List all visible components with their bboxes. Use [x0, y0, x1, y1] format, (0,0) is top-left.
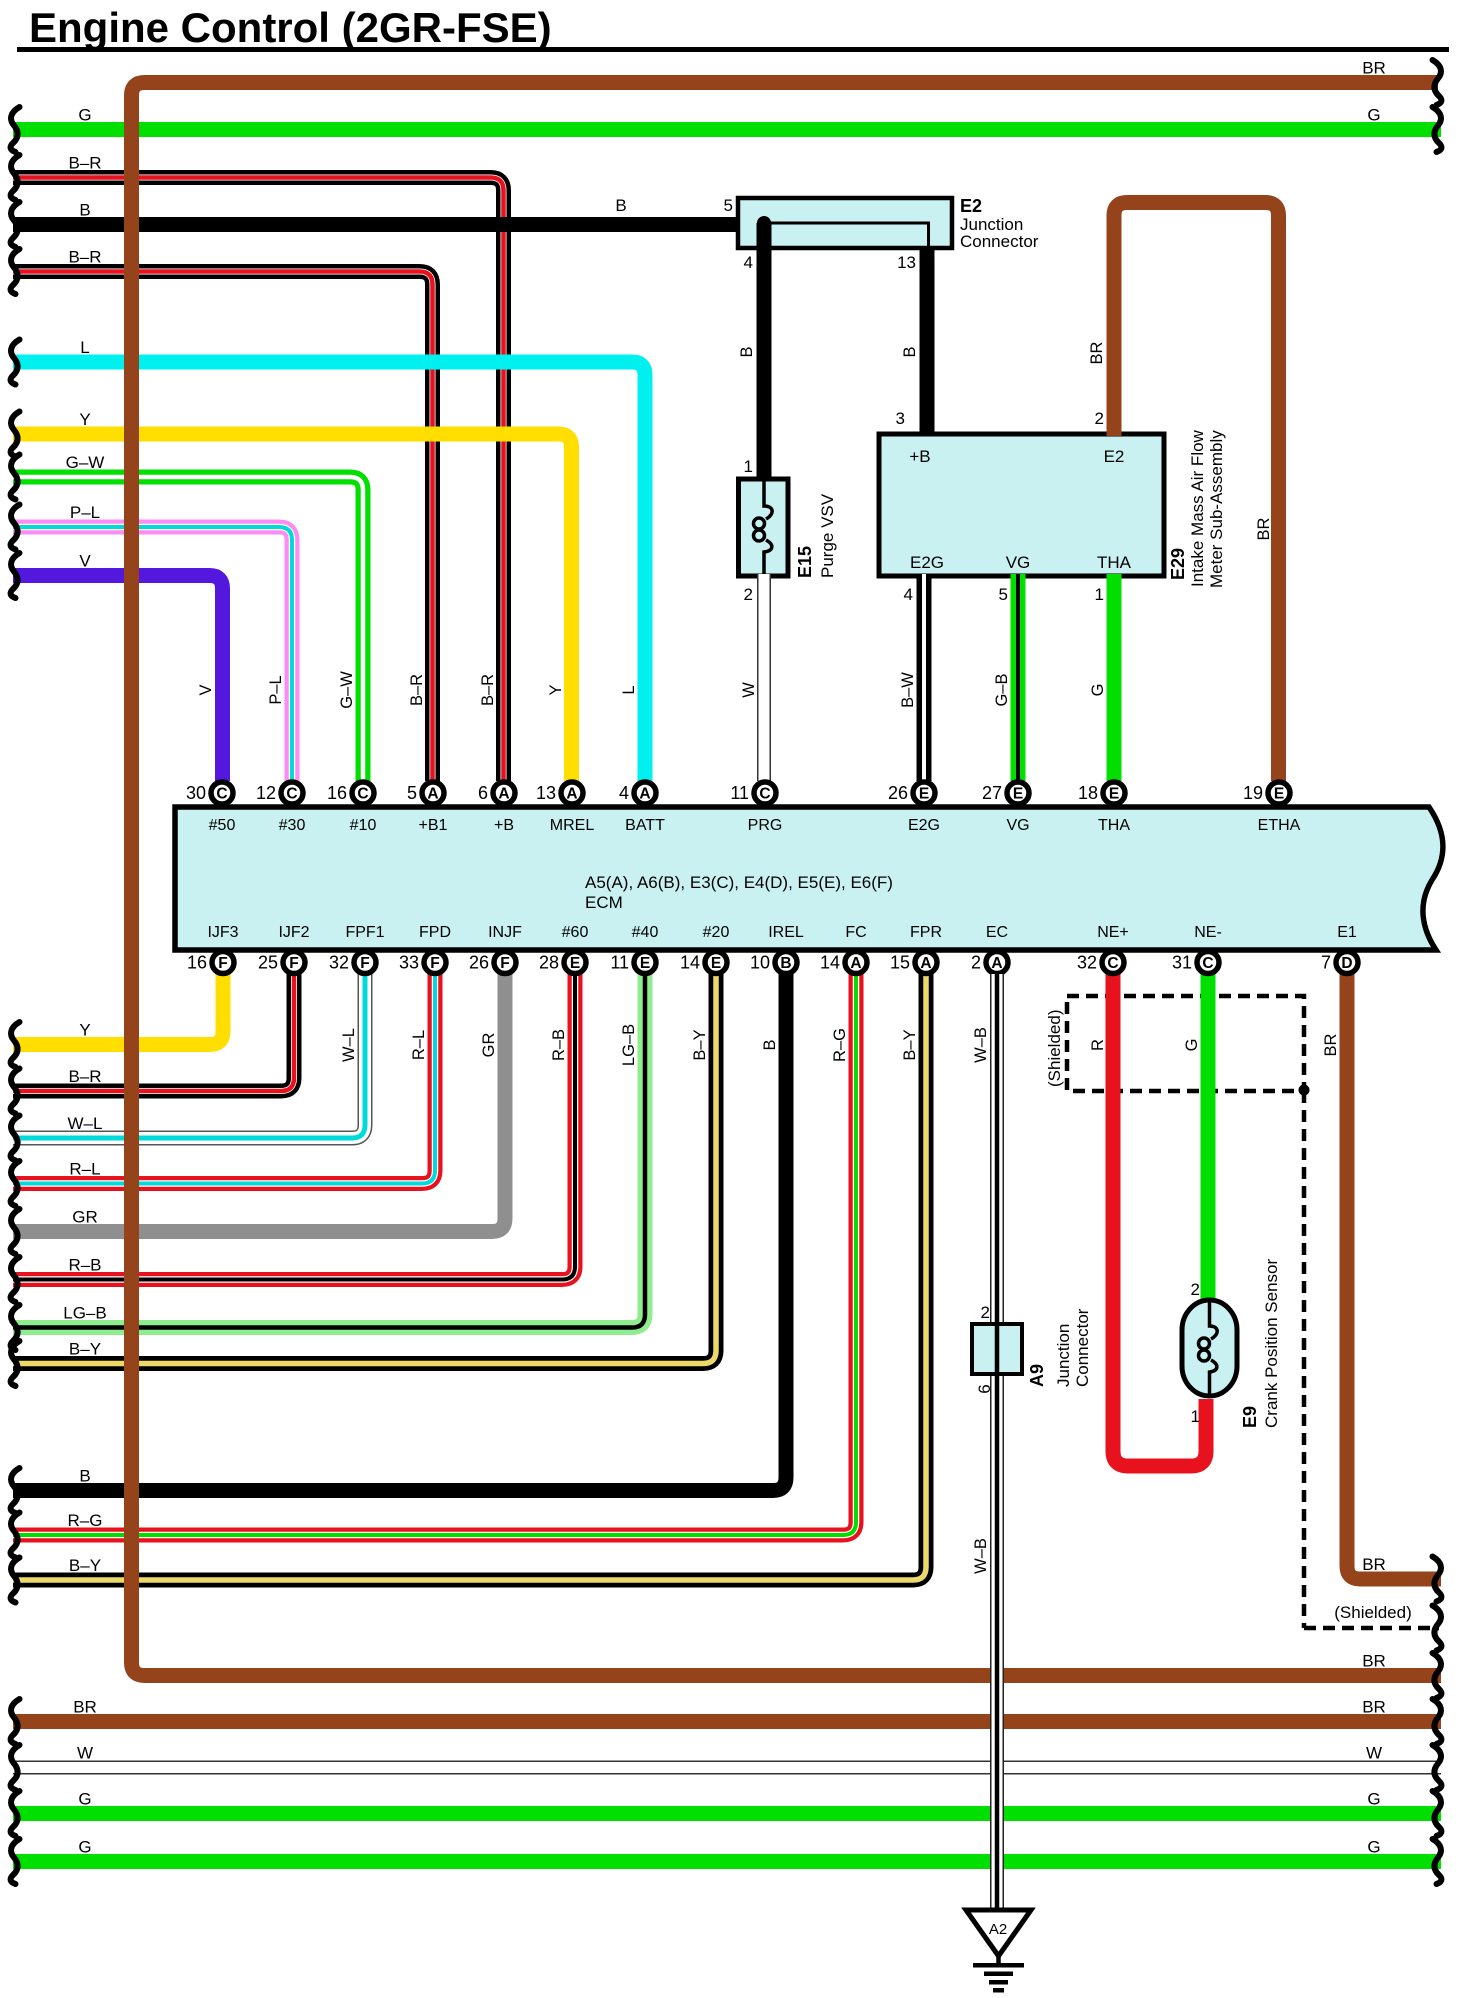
- svg-text:BR: BR: [1088, 341, 1106, 364]
- svg-text:13: 13: [897, 253, 916, 272]
- svg-text:R–B: R–B: [550, 1029, 568, 1061]
- ECM bottom pin 14(A) FC: [820, 924, 867, 974]
- svg-text:B: B: [79, 1467, 90, 1486]
- ECM bottom pin 26(F) INJF: [469, 924, 522, 974]
- wire B from IREL: [13, 974, 786, 1491]
- svg-text:11: 11: [610, 953, 629, 973]
- svg-text:E: E: [570, 955, 580, 972]
- svg-text:B–Y: B–Y: [691, 1029, 709, 1060]
- svg-text:Junction: Junction: [1054, 1324, 1073, 1387]
- svg-text:A: A: [566, 786, 577, 803]
- svg-text:C: C: [357, 786, 368, 803]
- svg-text:BR: BR: [1362, 1652, 1386, 1671]
- svg-text:31: 31: [1172, 953, 1192, 973]
- svg-text:V: V: [79, 552, 91, 571]
- wire BR trunk (top row, left vertical, bottom row): [132, 83, 1442, 1676]
- wire BR from E29 E2 to ETHA: [1114, 203, 1279, 782]
- svg-text:B–R: B–R: [408, 674, 426, 706]
- svg-text:Connector: Connector: [1073, 1308, 1092, 1387]
- svg-text:Y: Y: [79, 1021, 90, 1040]
- ECM bottom pin 15(A) FPR: [890, 924, 942, 974]
- E15 coil: [764, 481, 772, 519]
- svg-text:B–R: B–R: [68, 154, 101, 173]
- ECM bottom pin 32(F) FPF1: [329, 924, 385, 974]
- svg-text:E2: E2: [1104, 447, 1125, 466]
- svg-text:6: 6: [478, 783, 488, 803]
- ground A2 triangle: [966, 1910, 1031, 1956]
- wire-break left B-R3: [11, 1069, 20, 1114]
- svg-text:16: 16: [327, 783, 347, 803]
- svg-text:F: F: [218, 955, 227, 972]
- svg-text:E15: E15: [795, 546, 815, 578]
- wire R-L from FPD: [13, 974, 435, 1184]
- svg-text:18: 18: [1078, 783, 1098, 803]
- svg-text:11: 11: [730, 783, 749, 803]
- shield dashed drain vertical: [1302, 1091, 1307, 1628]
- ECM top pin 19(E) ETHA: [1243, 782, 1301, 834]
- svg-text:NE+: NE+: [1097, 924, 1129, 941]
- svg-text:R–G: R–G: [831, 1028, 849, 1062]
- svg-text:13: 13: [536, 783, 556, 803]
- svg-text:A2: A2: [989, 1921, 1007, 1938]
- junction connector A9 box: [972, 1324, 1022, 1374]
- svg-text:B: B: [780, 955, 791, 972]
- wire-break left R-B: [11, 1257, 20, 1302]
- svg-text:W–B: W–B: [972, 1538, 990, 1574]
- svg-text:10: 10: [750, 953, 770, 973]
- svg-text:F: F: [500, 955, 509, 972]
- svg-text:B–Y: B–Y: [69, 1556, 101, 1575]
- wire-break left G: [11, 107, 20, 152]
- svg-text:A5(A), A6(B), E3(C), E4(D), E5: A5(A), A6(B), E3(C), E4(D), E5(E), E6(F): [585, 873, 893, 892]
- svg-text:R: R: [1089, 1039, 1107, 1051]
- svg-text:P–L: P–L: [267, 675, 285, 704]
- wire R-B from #60: [13, 974, 575, 1280]
- wire-break left B-Y2: [11, 1558, 20, 1603]
- svg-text:Crank Position Sensor: Crank Position Sensor: [1262, 1259, 1281, 1428]
- svg-text:E2: E2: [960, 196, 982, 216]
- svg-text:BR: BR: [1322, 1033, 1340, 1056]
- wire R-G from FC: [13, 974, 856, 1535]
- wire-break right BR E1: [1433, 1557, 1442, 1602]
- shield junction dot: [1299, 1085, 1310, 1096]
- A9 internal wire stripe: [995, 1324, 1000, 1374]
- svg-text:R–G: R–G: [68, 1511, 103, 1530]
- wire-break right BR top: [1433, 60, 1442, 105]
- svg-text:LG–B: LG–B: [620, 1024, 638, 1066]
- ground bars: [973, 1963, 1024, 1993]
- svg-text:F: F: [289, 955, 298, 972]
- svg-text:G: G: [1183, 1039, 1201, 1052]
- svg-text:ETHA: ETHA: [1258, 817, 1301, 834]
- svg-text:Intake Mass Air Flow: Intake Mass Air Flow: [1188, 429, 1207, 587]
- wire-break left B-R2: [11, 249, 20, 294]
- ECM bottom pin 25(F) IJF2: [258, 924, 310, 974]
- svg-text:C: C: [1107, 955, 1118, 972]
- ECM top pin 26(E) E2G: [888, 782, 940, 834]
- ECM top pin 18(E) THA: [1078, 782, 1130, 834]
- wire B-Y from #20: [13, 974, 716, 1364]
- svg-text:BR: BR: [1362, 1698, 1386, 1717]
- E9 coil: [1210, 1302, 1218, 1339]
- svg-text:R–L: R–L: [69, 1160, 100, 1179]
- svg-text:5: 5: [724, 196, 733, 215]
- wire-break left BR2: [11, 1699, 20, 1744]
- svg-text:4: 4: [619, 783, 629, 803]
- svg-text:A: A: [850, 955, 861, 972]
- svg-text:FPF1: FPF1: [345, 924, 384, 941]
- svg-text:32: 32: [329, 953, 349, 973]
- svg-text:E: E: [1013, 786, 1023, 803]
- svg-text:E2G: E2G: [910, 553, 944, 572]
- wire-break left V: [11, 553, 20, 598]
- svg-text:INJF: INJF: [488, 924, 522, 941]
- wire B-W from E2G: [917, 574, 932, 781]
- svg-text:FC: FC: [845, 924, 866, 941]
- wire V to #50: [13, 576, 223, 782]
- wire-break left Y: [11, 412, 20, 457]
- svg-text:Engine Control (2GR-FSE): Engine Control (2GR-FSE): [29, 4, 552, 51]
- svg-text:#10: #10: [350, 817, 377, 834]
- svg-text:THA: THA: [1098, 817, 1130, 834]
- ECM top pin 27(E) VG: [982, 782, 1030, 834]
- svg-text:28: 28: [539, 953, 559, 973]
- shield dashed drain horizontal: [1304, 1626, 1439, 1631]
- wire G (row 2): [13, 122, 1441, 137]
- wire B-R to +B: [13, 178, 504, 782]
- svg-text:#40: #40: [632, 924, 659, 941]
- svg-text:26: 26: [888, 783, 908, 803]
- svg-text:Y: Y: [79, 410, 90, 429]
- svg-text:1: 1: [744, 457, 753, 476]
- wire B-Y from FPR: [13, 974, 926, 1580]
- wire W from E15 to PRG: [757, 574, 771, 781]
- svg-text:E: E: [1109, 786, 1119, 803]
- wire Y to MREL: [13, 434, 572, 781]
- svg-text:B: B: [79, 201, 90, 220]
- svg-text:LG–B: LG–B: [63, 1304, 106, 1323]
- wire-break left B-R: [11, 155, 20, 200]
- svg-text:G: G: [1367, 1838, 1380, 1857]
- ECM top pin 16(C) #10: [327, 782, 376, 834]
- svg-text:NE-: NE-: [1194, 924, 1222, 941]
- svg-text:E: E: [640, 955, 650, 972]
- svg-text:G–W: G–W: [338, 671, 356, 709]
- wire-break left R-L: [11, 1161, 20, 1206]
- wire-break left G3: [11, 1839, 20, 1884]
- svg-text:L: L: [620, 685, 638, 694]
- svg-text:2: 2: [981, 1303, 990, 1322]
- svg-text:+B: +B: [494, 817, 514, 834]
- svg-text:B: B: [901, 346, 919, 357]
- svg-text:BR: BR: [1362, 1555, 1386, 1574]
- svg-text:E: E: [711, 955, 721, 972]
- svg-text:4: 4: [744, 253, 753, 272]
- svg-text:33: 33: [399, 953, 419, 973]
- svg-text:E1: E1: [1337, 924, 1357, 941]
- ECM top pin 5(A) +B1: [407, 782, 448, 834]
- svg-text:L: L: [80, 338, 89, 357]
- svg-text:P–L: P–L: [70, 503, 100, 522]
- svg-text:G–B: G–B: [993, 673, 1011, 706]
- wire-break right BR trunk: [1433, 1653, 1442, 1698]
- svg-text:F: F: [430, 955, 439, 972]
- wire G-B from VG: [1011, 574, 1026, 781]
- wire-break left W-L: [11, 1116, 20, 1161]
- ECM bottom pin 32(C) NE+: [1077, 924, 1129, 974]
- wire L to BATT: [13, 362, 645, 781]
- wire-break right G2: [1433, 1791, 1442, 1836]
- wire-break right BR2: [1433, 1699, 1442, 1744]
- wire Y from IJF3: [13, 974, 223, 1045]
- svg-text:VG: VG: [1006, 553, 1031, 572]
- svg-text:THA: THA: [1097, 553, 1132, 572]
- svg-text:30: 30: [186, 783, 206, 803]
- wire B-R to +B1: [13, 272, 433, 782]
- svg-text:2: 2: [1191, 1280, 1200, 1299]
- ECM top pin 13(A) MREL: [536, 782, 594, 834]
- junction connector E2 box: [738, 198, 952, 248]
- wire-break left GR: [11, 1209, 20, 1254]
- wire W-B from EC to ground: [990, 974, 1004, 1908]
- ECM top pin 12(C) #30: [256, 782, 305, 834]
- svg-text:B: B: [761, 1039, 779, 1050]
- svg-text:G: G: [78, 1790, 91, 1809]
- svg-text:G: G: [78, 1838, 91, 1857]
- ECM bottom pin 33(F) FPD: [399, 924, 451, 974]
- crank position sensor E9 body: [1182, 1300, 1237, 1396]
- wire B from E2 pin13 to E29 +B: [920, 246, 935, 436]
- wire B-R from IJF2: [13, 974, 294, 1091]
- wire-break left G-W: [11, 455, 20, 500]
- intake mass air flow meter E29 box: [879, 434, 1164, 576]
- svg-text:IJF2: IJF2: [278, 924, 309, 941]
- wire-break right shield dash: [1433, 1606, 1442, 1651]
- wire W (bottom row): [13, 1761, 1441, 1775]
- svg-text:B–R: B–R: [479, 674, 497, 706]
- wire BR (row near bottom): [13, 1714, 1441, 1729]
- wire G (bottom row 2): [13, 1854, 1441, 1869]
- ECM top pin 11(C) PRG: [730, 782, 782, 834]
- ECM top pin 6(A) +B: [478, 782, 515, 834]
- wire G from THA: [1107, 574, 1122, 781]
- svg-text:BR: BR: [1362, 59, 1386, 78]
- svg-text:EC: EC: [986, 924, 1008, 941]
- svg-text:14: 14: [820, 953, 840, 973]
- ECM bottom pin 14(E) #20: [680, 924, 729, 974]
- ECM bottom pin 7(D) E1: [1321, 924, 1358, 974]
- svg-text:6: 6: [975, 1384, 994, 1393]
- svg-text:27: 27: [982, 783, 1002, 803]
- svg-text:VG: VG: [1006, 817, 1029, 834]
- svg-text:A: A: [920, 955, 931, 972]
- svg-text:BR: BR: [73, 1698, 97, 1717]
- svg-text:FPR: FPR: [910, 924, 942, 941]
- svg-text:E29: E29: [1168, 548, 1188, 580]
- svg-text:G: G: [1089, 684, 1107, 697]
- wire-break left W: [11, 1745, 20, 1790]
- svg-text:F: F: [360, 955, 369, 972]
- svg-text:C: C: [286, 786, 297, 803]
- svg-text:Meter Sub-Assembly: Meter Sub-Assembly: [1207, 430, 1226, 588]
- svg-text:3: 3: [896, 409, 905, 428]
- wire R from NE+ to E9 pin1: [1113, 974, 1206, 1466]
- svg-text:V: V: [197, 684, 215, 695]
- svg-text:B–R: B–R: [68, 248, 101, 267]
- svg-text:C: C: [1202, 955, 1213, 972]
- ECM bottom pin 16(F) IJF3: [187, 924, 239, 974]
- svg-text:GR: GR: [72, 1208, 98, 1227]
- svg-text:B: B: [615, 196, 626, 215]
- E2 junction dot: [757, 216, 771, 230]
- wire B to E2 junction: [13, 217, 742, 232]
- svg-text:A: A: [427, 786, 438, 803]
- purge VSV E15 box: [739, 479, 789, 576]
- svg-text:E: E: [919, 786, 929, 803]
- svg-text:A: A: [498, 786, 509, 803]
- wire G from NE- to E9 pin2: [1201, 974, 1216, 1302]
- svg-text:A9: A9: [1027, 1364, 1047, 1387]
- wire-break left B-Y: [11, 1341, 20, 1386]
- svg-text:A: A: [991, 955, 1002, 972]
- svg-text:MREL: MREL: [550, 817, 595, 834]
- svg-text:#30: #30: [279, 817, 306, 834]
- svg-text:14: 14: [680, 953, 700, 973]
- ECM bottom pin 31(C) NE-: [1172, 924, 1222, 974]
- svg-text:W: W: [740, 682, 758, 698]
- svg-text:C: C: [216, 786, 227, 803]
- svg-text:D: D: [1341, 955, 1352, 972]
- wire-break left L: [11, 340, 20, 385]
- shield dashed box: [1067, 996, 1304, 1091]
- ground stub: [996, 1956, 1001, 1964]
- svg-text:GR: GR: [480, 1033, 498, 1058]
- wire-break right G top: [1433, 107, 1442, 152]
- svg-text:E2G: E2G: [908, 817, 940, 834]
- svg-text:G: G: [1367, 106, 1380, 125]
- svg-text:Purge VSV: Purge VSV: [818, 493, 837, 578]
- wire G (bottom row 1): [13, 1806, 1441, 1821]
- wire-break left P-L: [11, 505, 20, 550]
- title underline: [17, 47, 1449, 52]
- svg-text:IREL: IREL: [768, 924, 804, 941]
- svg-text:2: 2: [1095, 409, 1104, 428]
- svg-text:25: 25: [258, 953, 278, 973]
- svg-text:#50: #50: [209, 817, 236, 834]
- wire-break left B2: [11, 1468, 20, 1513]
- svg-text:A: A: [639, 786, 650, 803]
- svg-text:+B1: +B1: [419, 817, 448, 834]
- svg-text:C: C: [759, 786, 770, 803]
- wire-break right G3: [1433, 1839, 1442, 1884]
- svg-text:W–B: W–B: [972, 1027, 990, 1063]
- svg-text:2: 2: [971, 953, 981, 973]
- svg-text:B–R: B–R: [68, 1067, 101, 1086]
- ECM box: [175, 807, 1443, 950]
- ECM bottom pin 28(E) #60: [539, 924, 588, 974]
- svg-text:B: B: [738, 346, 756, 357]
- svg-text:4: 4: [904, 585, 913, 604]
- svg-text:R–B: R–B: [68, 1256, 101, 1275]
- svg-text:32: 32: [1077, 953, 1097, 973]
- svg-text:W–L: W–L: [68, 1114, 103, 1133]
- svg-text:7: 7: [1321, 953, 1331, 973]
- svg-text:B–W: B–W: [899, 672, 917, 708]
- svg-text:PRG: PRG: [748, 817, 783, 834]
- svg-text:12: 12: [256, 783, 276, 803]
- wire LG-B from #40: [13, 974, 645, 1328]
- svg-text:Y: Y: [547, 684, 565, 695]
- svg-text:W: W: [1366, 1744, 1382, 1763]
- svg-text:W: W: [77, 1744, 93, 1763]
- svg-text:(Shielded): (Shielded): [1334, 1603, 1412, 1622]
- svg-text:5: 5: [999, 585, 1008, 604]
- svg-text:#60: #60: [562, 924, 589, 941]
- svg-text:W–L: W–L: [340, 1028, 358, 1062]
- svg-text:G–W: G–W: [66, 453, 105, 472]
- svg-text:B–Y: B–Y: [69, 1340, 101, 1359]
- ECM bottom pin 2(A) EC: [971, 924, 1008, 974]
- svg-text:1: 1: [1191, 1407, 1200, 1426]
- svg-text:2: 2: [744, 585, 753, 604]
- svg-text:E9: E9: [1240, 1406, 1260, 1428]
- wire-break right W: [1433, 1745, 1442, 1790]
- svg-text:19: 19: [1243, 783, 1263, 803]
- svg-text:15: 15: [890, 953, 910, 973]
- wire B from E2 pin4 to E15: [757, 223, 772, 481]
- wire-break left Y2: [11, 1022, 20, 1067]
- svg-text:Connector: Connector: [960, 232, 1039, 251]
- svg-text:FPD: FPD: [419, 924, 451, 941]
- svg-text:B–Y: B–Y: [901, 1029, 919, 1060]
- wire P-L to #30: [13, 527, 292, 781]
- svg-text:16: 16: [187, 953, 207, 973]
- wire-break left B: [11, 202, 20, 247]
- svg-text:26: 26: [469, 953, 489, 973]
- ECM bottom pin 11(E) #40: [610, 924, 658, 974]
- svg-text:(Shielded): (Shielded): [1045, 1010, 1064, 1088]
- wire W-L from FPF1: [13, 974, 365, 1138]
- ECM bottom pin 10(B) IREL: [750, 924, 804, 974]
- svg-text:G: G: [78, 106, 91, 125]
- wire-break left R-G: [11, 1513, 20, 1558]
- svg-text:BR: BR: [1255, 517, 1273, 540]
- svg-text:BATT: BATT: [625, 817, 665, 834]
- svg-text:E: E: [1274, 786, 1284, 803]
- wire-break left LG-B: [11, 1305, 20, 1350]
- svg-text:G: G: [1367, 1790, 1380, 1809]
- svg-text:IJF3: IJF3: [207, 924, 238, 941]
- wire GR from INJF: [13, 974, 505, 1232]
- svg-text:ECM: ECM: [585, 893, 623, 912]
- svg-text:5: 5: [407, 783, 417, 803]
- svg-text:#20: #20: [703, 924, 730, 941]
- svg-text:+B: +B: [909, 447, 930, 466]
- svg-text:R–L: R–L: [410, 1030, 428, 1060]
- svg-text:1: 1: [1095, 585, 1104, 604]
- ECM top pin 4(A) BATT: [619, 782, 665, 834]
- ECM top pin 30(C) #50: [186, 782, 235, 834]
- E2 internal bus: [764, 223, 929, 246]
- wire G-W to #10: [13, 477, 363, 781]
- wire-break left G2: [11, 1791, 20, 1836]
- wire BR from E1: [1347, 974, 1441, 1579]
